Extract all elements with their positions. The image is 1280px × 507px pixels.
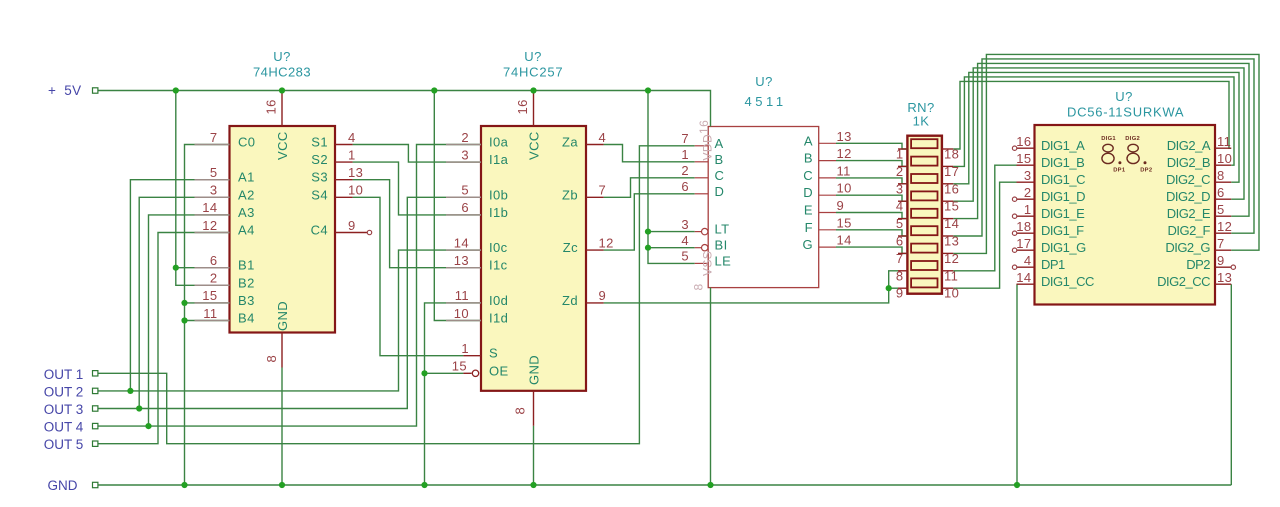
svg-text:A3: A3 <box>238 205 255 220</box>
U1 GND pin 8 stub <box>281 333 283 368</box>
svg-text:E: E <box>804 203 813 218</box>
svg-text:OUT 3: OUT 3 <box>44 402 84 417</box>
RN pin 1 stub <box>898 148 907 150</box>
svg-text:17: 17 <box>944 164 959 179</box>
junction GND rail at DIG1_CC <box>1014 482 1020 488</box>
svg-text:A: A <box>715 136 724 151</box>
wire net RN18 segment loop to DIG2 <box>953 81 1231 149</box>
svg-text:5: 5 <box>896 216 904 231</box>
wire S4 to S <box>353 197 464 355</box>
svg-text:1: 1 <box>348 147 356 162</box>
svg-text:7: 7 <box>599 183 607 198</box>
svg-text:16: 16 <box>515 99 530 114</box>
svg-text:DIG1_B: DIG1_B <box>1041 155 1084 170</box>
svg-text:I0a: I0a <box>489 135 509 150</box>
junction RN pin 9 tie <box>886 285 892 291</box>
svg-text:12: 12 <box>202 218 217 233</box>
svg-text:7: 7 <box>896 251 904 266</box>
wire 4511 output 6 to RN pin 6 <box>836 230 907 236</box>
U5 pin 1 (DIG1_E) stub <box>1017 215 1035 217</box>
svg-text:Za: Za <box>562 135 578 150</box>
svg-text:DIG2_G: DIG2_G <box>1165 240 1210 255</box>
U3 pin 4 (BI) stub <box>695 247 702 249</box>
svg-text:Zb: Zb <box>562 187 578 202</box>
U1 pin 12 (A4) stub <box>195 232 230 234</box>
junction +5V rail at U1 VCC <box>279 87 285 93</box>
svg-text:VCC: VCC <box>275 131 290 160</box>
U2 pin 1 (S) stub <box>463 355 481 357</box>
U3 pin 15 (out F) stub <box>819 229 836 231</box>
wire U2 GND pin to rail <box>533 426 535 485</box>
wire Zd to RN pins 8/9 <box>604 271 898 303</box>
svg-text:U?: U? <box>273 49 290 64</box>
svg-text:7: 7 <box>681 131 689 146</box>
RN pin 9 stub <box>898 287 907 289</box>
wire GND rail <box>97 484 1232 486</box>
wire 4511 output 4 to RN pin 4 <box>836 195 907 201</box>
svg-text:8: 8 <box>513 407 528 415</box>
svg-text:12: 12 <box>837 146 852 161</box>
svg-text:6: 6 <box>1217 185 1225 200</box>
svg-text:DC56-11SURKWA: DC56-11SURKWA <box>1067 105 1184 120</box>
wire RN 11 to DIG1_B <box>953 165 1016 271</box>
svg-text:DP1: DP1 <box>1041 257 1065 272</box>
svg-text:3: 3 <box>210 183 218 198</box>
wire OUT3 to I0b <box>97 197 481 408</box>
svg-text:VSS: VSS <box>701 251 715 276</box>
wire branch to BI <box>648 247 695 249</box>
U5 pin 4 (DP1) stub <box>1017 266 1035 268</box>
U2 pin 5 (I0b) stub <box>446 196 481 198</box>
IC U? 4511 body <box>708 127 819 288</box>
IC U? 74HC257 body <box>481 126 586 391</box>
svg-text:2: 2 <box>681 163 689 178</box>
svg-text:OUT 4: OUT 4 <box>44 420 84 435</box>
U5 pin 11 (DIG2_A) stub <box>1215 147 1231 149</box>
wire GND branch to OE <box>425 372 464 374</box>
svg-text:15: 15 <box>1016 151 1031 166</box>
svg-text:A: A <box>804 133 813 148</box>
wire branch to LT <box>648 231 695 233</box>
U5 pin 10 (DIG2_B) stub <box>1215 164 1231 166</box>
svg-text:10: 10 <box>454 306 469 321</box>
svg-text:12: 12 <box>1217 219 1232 234</box>
U2 pin 4 (Za) stub <box>586 144 604 146</box>
svg-text:4: 4 <box>896 199 904 214</box>
U1 pin 5 (A1) stub <box>195 179 230 181</box>
U2 pin 3 (I1a) stub <box>446 161 481 163</box>
svg-text:4: 4 <box>348 130 356 145</box>
junction OUT3 at A2 riser <box>136 405 142 411</box>
junction +5V rail at I1d riser <box>431 87 437 93</box>
RN pin 18 stub <box>942 148 953 150</box>
U3 pin 10 (out D) stub <box>819 194 836 196</box>
svg-text:14: 14 <box>944 216 959 231</box>
wire +5V down to LT/BI/LE <box>648 91 695 264</box>
junction +5V rail at LT/BI/LE riser <box>645 87 651 93</box>
RN pin 5 stub <box>898 218 907 220</box>
junction B4 branch <box>181 317 187 323</box>
U5 pin 4 unconnected circle <box>1012 265 1016 269</box>
svg-text:12: 12 <box>944 251 959 266</box>
U3 pin 3 (LT) stub <box>695 231 702 233</box>
svg-text:2: 2 <box>461 130 469 145</box>
wire OUT4 to I0a <box>97 145 481 427</box>
U1 pin 1 (S2) stub <box>335 161 353 163</box>
svg-text:16: 16 <box>944 181 959 196</box>
svg-text:9: 9 <box>348 218 356 233</box>
svg-text:C4: C4 <box>311 223 328 238</box>
svg-text:4: 4 <box>1024 253 1032 268</box>
svg-text:13: 13 <box>348 165 363 180</box>
svg-text:DIG1_A: DIG1_A <box>1041 138 1085 153</box>
U2 pin 9 (Zd) stub <box>586 302 604 304</box>
wire RN pin 9 branch <box>889 287 898 289</box>
svg-text:10: 10 <box>1217 151 1232 166</box>
svg-text:DIG2_A: DIG2_A <box>1167 138 1211 153</box>
svg-text:8: 8 <box>264 355 279 363</box>
svg-text:11: 11 <box>837 163 851 178</box>
U1 pin 7 (C0) stub <box>195 144 230 146</box>
U5 pin 17 unconnected circle <box>1012 248 1016 252</box>
U5 pin 8 (DIG2_C) stub <box>1215 181 1231 183</box>
U5 seven-segment digit 1 figure 8 <box>1102 144 1114 163</box>
resistor element 2 of RN? <box>911 157 937 166</box>
resistor element 9 of RN? <box>911 278 937 287</box>
svg-text:I1a: I1a <box>489 152 509 167</box>
U5 pin 2 (DIG1_D) stub <box>1017 198 1035 200</box>
U3 pin 5 (LE) stub <box>695 262 709 264</box>
svg-text:1K: 1K <box>913 114 930 129</box>
svg-text:10: 10 <box>348 183 363 198</box>
svg-text:6: 6 <box>896 234 904 249</box>
svg-text:1: 1 <box>681 147 689 162</box>
wire OUT1 to 4511 A <box>97 146 695 444</box>
wire net RN12 segment loop to DIG2 <box>953 54 1259 253</box>
U5 pin 9 unconnected circle <box>1231 265 1235 269</box>
wire OUT2 branch to A1 <box>130 180 229 391</box>
U5 pin 17 (DIG1_G) stub <box>1017 249 1035 251</box>
svg-text:14: 14 <box>837 233 852 248</box>
svg-text:A4: A4 <box>238 223 255 238</box>
svg-text:A2: A2 <box>238 187 255 202</box>
svg-text:DIG2_C: DIG2_C <box>1166 172 1210 187</box>
svg-text:Zd: Zd <box>562 293 578 308</box>
wire net RN13 segment loop to DIG2 <box>953 59 1254 236</box>
svg-text:9: 9 <box>837 198 845 213</box>
U2 pin 7 (Zb) stub <box>586 196 604 198</box>
svg-text:DIG1_CC: DIG1_CC <box>1041 274 1094 289</box>
svg-text:14: 14 <box>202 200 217 215</box>
U5 pin 12 (DIG2_F) stub <box>1215 232 1231 234</box>
svg-text:4: 4 <box>681 233 689 248</box>
svg-text:74HC257: 74HC257 <box>503 65 563 80</box>
OUT 1 terminal <box>93 371 98 376</box>
U5 pin 16 unconnected circle <box>1012 146 1016 150</box>
wire Zc to 4511 D <box>604 194 695 250</box>
wire Za to 4511 B <box>604 145 695 162</box>
RN pin 12 stub <box>942 252 953 254</box>
svg-text:U?: U? <box>755 74 772 89</box>
svg-text:14: 14 <box>454 235 469 250</box>
wire OUT3 branch to A2 <box>139 197 229 408</box>
svg-text:S4: S4 <box>311 187 328 202</box>
svg-text:2: 2 <box>210 271 218 286</box>
U2 pin 6 (I1b) stub <box>446 214 481 216</box>
U3 pin 1 (B) stub <box>695 161 709 163</box>
svg-text:2: 2 <box>1024 185 1032 200</box>
+5V terminal <box>93 88 98 93</box>
U5 pin 1 unconnected circle <box>1012 214 1016 218</box>
svg-text:18: 18 <box>944 147 959 162</box>
svg-text:9: 9 <box>1217 253 1225 268</box>
wire OUT2 to I0c <box>97 250 481 391</box>
U1 pin 4 (S1) stub <box>335 144 353 146</box>
U1 pin 11 (B4) stub <box>195 320 230 322</box>
U3 pin 6 (D) stub <box>695 193 709 195</box>
wire S1 to I1a <box>353 145 481 163</box>
U3 pin 2 (C) stub <box>695 177 709 179</box>
wire U3 VSS to rail <box>710 288 712 485</box>
junction BI branch <box>645 245 651 251</box>
U5 pin 3 (DIG1_C) stub <box>1017 181 1035 183</box>
U1 pin 13 (S3) stub <box>335 179 353 181</box>
wire S2 to I1b <box>353 162 481 215</box>
U5 pin 7 (DIG2_G) stub <box>1215 249 1231 251</box>
U1 VCC pin 16 stub <box>281 91 283 126</box>
U1 pin 15 (B3) stub <box>195 302 230 304</box>
wire 4511 output 3 to RN pin 3 <box>836 178 907 184</box>
wire net RN17 segment loop to DIG2 <box>953 77 1234 166</box>
U1 pin 3 (A2) stub <box>195 196 230 198</box>
OUT 3 terminal <box>93 406 98 411</box>
svg-text:11: 11 <box>944 268 958 283</box>
svg-text:OUT 5: OUT 5 <box>44 437 84 452</box>
svg-text:DIG1_G: DIG1_G <box>1041 240 1086 255</box>
svg-text:DP1: DP1 <box>1113 168 1126 174</box>
svg-text:S1: S1 <box>311 135 328 150</box>
svg-text:16: 16 <box>1016 134 1031 149</box>
svg-text:VCC: VCC <box>527 131 542 160</box>
U3 LT inversion bubble <box>702 228 708 234</box>
svg-text:10: 10 <box>837 181 852 196</box>
wire S3 to I1c <box>353 180 481 268</box>
OUT 4 terminal <box>93 423 98 428</box>
svg-text:C0: C0 <box>238 135 255 150</box>
junction B1 branch <box>173 265 179 271</box>
svg-text:GND: GND <box>527 355 542 385</box>
svg-text:8: 8 <box>896 268 904 283</box>
svg-text:13: 13 <box>837 129 852 144</box>
U5 digit 2 decimal point <box>1144 161 1147 164</box>
svg-text:13: 13 <box>944 234 959 249</box>
wire OUT5 to A4 <box>97 233 230 444</box>
U5 pin 2 unconnected circle <box>1012 197 1016 201</box>
svg-text:D: D <box>803 185 813 200</box>
resistor element 1 of RN? <box>911 139 937 148</box>
wire +5V down to B1/B2 <box>176 91 230 286</box>
wire +5V down to I1d <box>434 91 481 321</box>
svg-text:I0b: I0b <box>489 187 508 202</box>
wire Zb to 4511 C <box>604 178 695 198</box>
svg-text:LE: LE <box>715 253 732 268</box>
wire GND up to OE and I0d <box>425 303 482 485</box>
U5 pin 13 (DIG2_CC) stub <box>1215 283 1231 285</box>
U1 pin 10 (S4) stub <box>335 196 353 198</box>
svg-text:16: 16 <box>697 120 711 134</box>
svg-text:9: 9 <box>896 286 904 301</box>
svg-text:OUT 1: OUT 1 <box>44 367 84 382</box>
wire 4511 output 1 to RN pin 1 <box>836 143 907 149</box>
svg-text:5: 5 <box>210 165 218 180</box>
svg-text:S2: S2 <box>311 152 328 167</box>
wire OUT4 branch to A3 <box>149 215 230 426</box>
svg-text:15: 15 <box>944 199 959 214</box>
svg-text:B: B <box>804 151 813 166</box>
wire +5V branch to B1 <box>176 267 230 269</box>
junction +5V rail at U2 VCC <box>530 87 536 93</box>
svg-text:S3: S3 <box>311 170 328 185</box>
svg-text:I1b: I1b <box>489 205 508 220</box>
svg-text:DIG1_F: DIG1_F <box>1041 223 1084 238</box>
svg-text:15: 15 <box>452 359 467 374</box>
junction GND rail at OE riser <box>421 482 427 488</box>
svg-text:5: 5 <box>461 183 469 198</box>
svg-text:LT: LT <box>715 222 730 237</box>
svg-text:15: 15 <box>202 288 217 303</box>
svg-text:GND: GND <box>275 301 290 331</box>
svg-text:I1d: I1d <box>489 311 508 326</box>
svg-text:74HC283: 74HC283 <box>253 65 311 80</box>
svg-text:+ 5V: + 5V <box>48 83 81 98</box>
wire 4511 output 5 to RN pin 5 <box>836 213 907 219</box>
U2 GND pin 8 stub <box>533 391 535 426</box>
RN pin 4 stub <box>898 200 907 202</box>
svg-text:G: G <box>802 237 813 252</box>
U3 pin 9 (out E) stub <box>819 212 836 214</box>
U5 digit 1 decimal point <box>1118 161 1121 164</box>
U1 pin 6 (B1) stub <box>195 267 230 269</box>
U5 pin 6 (DIG2_D) stub <box>1215 198 1231 200</box>
svg-text:U?: U? <box>1115 89 1132 104</box>
svg-text:7: 7 <box>210 130 218 145</box>
wire 4511 output 2 to RN pin 2 <box>836 161 907 167</box>
U1 pin C4 unconnected circle <box>367 230 371 234</box>
svg-text:I0c: I0c <box>489 240 508 255</box>
junction OUT4 at A3 riser <box>145 423 151 429</box>
svg-text:I1c: I1c <box>489 258 508 273</box>
svg-text:8: 8 <box>692 283 706 290</box>
svg-text:A1: A1 <box>238 170 255 185</box>
svg-text:BI: BI <box>715 238 728 253</box>
svg-text:8: 8 <box>1217 168 1225 183</box>
RN pin 17 stub <box>942 165 953 167</box>
svg-text:DIG1_C: DIG1_C <box>1041 172 1085 187</box>
svg-text:1: 1 <box>1024 202 1032 217</box>
U1 pin 14 (A3) stub <box>195 214 230 216</box>
U3 BI inversion bubble <box>702 245 708 251</box>
U2 pin 11 (I0d) stub <box>446 302 481 304</box>
svg-text:6: 6 <box>210 253 218 268</box>
svg-text:3: 3 <box>1024 168 1032 183</box>
svg-text:18: 18 <box>1016 219 1031 234</box>
wire net RN16 segment loop to DIG2 <box>953 72 1239 183</box>
svg-text:16: 16 <box>264 99 279 114</box>
wire RN 10 to DIG1_C <box>953 182 1016 288</box>
wire U1 GND pin to rail <box>281 368 283 486</box>
U5 pin 9 (DP2) stub <box>1215 266 1231 268</box>
U2 pin 15 (OE) stub <box>463 372 471 374</box>
svg-text:15: 15 <box>837 215 852 230</box>
svg-text:DIG2_D: DIG2_D <box>1166 189 1210 204</box>
IC U? 74HC283 body <box>230 126 336 333</box>
wire GND branch to B4 <box>185 320 230 322</box>
svg-text:11: 11 <box>1217 134 1231 149</box>
svg-text:B4: B4 <box>238 311 255 326</box>
svg-text:Zc: Zc <box>563 240 578 255</box>
U3 pin 13 (out A) stub <box>819 142 836 144</box>
wire net RN14 segment loop to DIG2 <box>953 63 1249 218</box>
svg-text:DIG2_CC: DIG2_CC <box>1157 274 1210 289</box>
svg-text:17: 17 <box>1016 236 1031 251</box>
svg-text:S: S <box>489 346 498 361</box>
svg-text:DIG2_F: DIG2_F <box>1167 223 1210 238</box>
RN pin 15 stub <box>942 200 953 202</box>
svg-text:D: D <box>715 184 725 199</box>
junction GND rail at C0/B3/B4 riser <box>181 482 187 488</box>
svg-text:4: 4 <box>599 130 607 145</box>
U2 pin 2 (I0a) stub <box>446 144 481 146</box>
junction GND rail at U2 GND <box>530 482 536 488</box>
wire GND branch to B3 <box>185 302 230 304</box>
svg-text:5: 5 <box>1217 202 1225 217</box>
svg-text:11: 11 <box>455 288 469 303</box>
svg-text:B1: B1 <box>238 258 255 273</box>
junction +5V rail at B-input riser <box>173 87 179 93</box>
OUT 5 terminal <box>93 441 98 446</box>
svg-text:1: 1 <box>896 147 904 162</box>
svg-text:I0d: I0d <box>489 293 508 308</box>
junction GND rail at U1 GND <box>279 482 285 488</box>
wire DIG1_CC to GND rail <box>1016 284 1018 485</box>
display U? DC56-11SURKWA body <box>1035 125 1216 305</box>
resistor network RN? body <box>907 136 942 294</box>
svg-text:GND: GND <box>48 478 78 493</box>
RN pin 6 stub <box>898 235 907 237</box>
U5 seven-segment digit 2 figure 8 <box>1127 144 1139 163</box>
RN pin 14 stub <box>942 218 953 220</box>
svg-text:DIG1: DIG1 <box>1101 136 1116 142</box>
svg-text:5: 5 <box>681 249 689 264</box>
U2 OE inversion bubble <box>472 370 478 376</box>
resistor element 6 of RN? <box>911 226 937 235</box>
U3 pin 7 (A) stub <box>695 145 709 147</box>
U2 pin 13 (I1c) stub <box>446 267 481 269</box>
U2 pin 10 (I1d) stub <box>446 320 481 322</box>
svg-text:C: C <box>715 168 725 183</box>
wire +5V rail from terminal to 4511 VDD <box>97 91 711 127</box>
svg-text:3: 3 <box>681 217 689 232</box>
svg-text:3: 3 <box>461 147 469 162</box>
U3 pin 11 (out C) stub <box>819 177 836 179</box>
svg-text:10: 10 <box>944 286 959 301</box>
svg-text:6: 6 <box>461 200 469 215</box>
RN pin 16 stub <box>942 183 953 185</box>
svg-text:U?: U? <box>524 49 541 64</box>
U3 pin 12 (out B) stub <box>819 160 836 162</box>
svg-text:14: 14 <box>1016 270 1031 285</box>
wire net RN15 segment loop to DIG2 <box>953 68 1244 201</box>
